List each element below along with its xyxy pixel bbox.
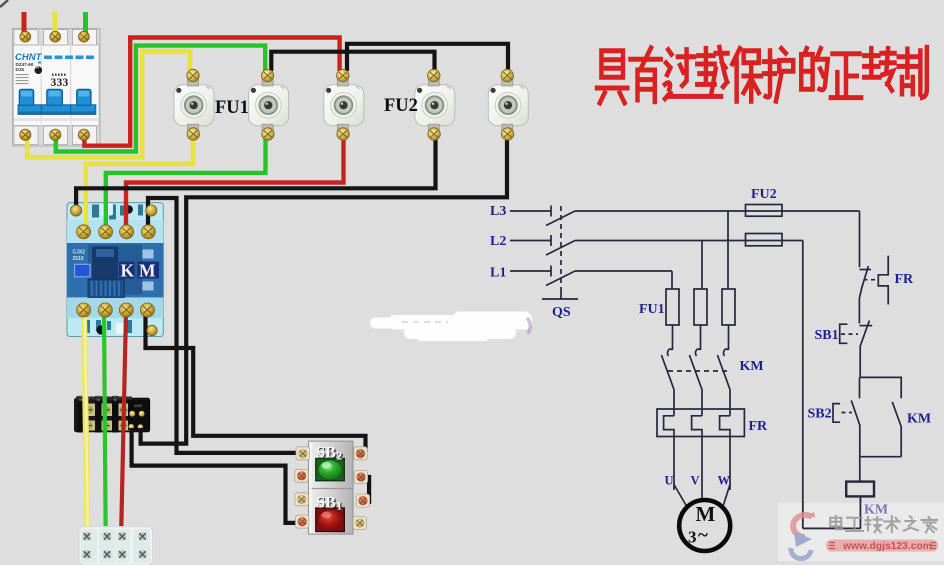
motor M: [679, 500, 730, 551]
title char 制: [899, 47, 927, 97]
motor text M 3~: [688, 502, 716, 547]
title char 的: [801, 48, 827, 89]
FR NC contact (control): [860, 269, 872, 271]
thermal relay FR heater box: [657, 409, 744, 437]
wire fuse to KM contacts: [672, 325, 674, 350]
svg-text:V: V: [691, 474, 700, 488]
screw slots: [22, 33, 512, 314]
wire fuse1 to contactor T1 (yellow): [86, 133, 193, 228]
fuse holder FU1 pole 1: [174, 80, 214, 131]
svg-text:FU1: FU1: [639, 302, 665, 317]
breaker top screws: [20, 31, 31, 42]
white correction blob: [370, 312, 532, 342]
title char 过: [665, 50, 694, 99]
node L3 feed line: [510, 210, 551, 212]
wire phase drops to FU1: [671, 271, 673, 289]
wire U to motor: [674, 485, 687, 507]
fuse holder FU2 pole 1: [415, 80, 455, 131]
circuit breaker QF (CHNT DZ47-60) body: [13, 29, 101, 147]
svg-text:SB1: SB1: [815, 328, 839, 343]
contactor KM main contact 3: [723, 349, 728, 356]
wire black fuse4 to contactor coil A2: [76, 133, 435, 207]
wire black coil jumper A1 and to SB2 left-top: [148, 198, 299, 453]
parallel split top: [860, 377, 902, 398]
svg-text:www.dgjs123.com: www.dgjs123.com: [842, 541, 932, 552]
svg-text:W: W: [718, 474, 731, 488]
wire black fuse2 to fuse4 top: [271, 52, 434, 71]
pushbutton station panel: [308, 441, 353, 534]
wire contactor bottom to terminal strip (yellow): [84, 311, 87, 527]
title char 有: [630, 48, 660, 102]
contactor aux screw: [147, 325, 157, 335]
QS linkage dashed bar: [560, 206, 562, 292]
svg-text:KM: KM: [907, 412, 931, 427]
svg-text:3: 3: [63, 77, 69, 89]
svg-text:M: M: [696, 502, 716, 526]
title char 转: [864, 48, 894, 90]
pushbutton SB2 (green start): [316, 459, 345, 481]
svg-text:KM: KM: [740, 359, 764, 374]
wire L3 bus: [575, 210, 860, 212]
svg-text:2510: 2510: [73, 256, 84, 262]
wire contactor bottom to terminal strip (red dark): [121, 311, 126, 527]
watermark logo: [791, 512, 815, 559]
parallel join bottom: [860, 456, 901, 458]
stop button SB1 (NC): [860, 325, 873, 327]
FR heater element 3: [720, 416, 730, 490]
thermal relay FR body: [75, 396, 150, 433]
watermark banner www.dgjs123.com: [826, 540, 938, 552]
wire breaker to fuse2 (green): [56, 46, 265, 152]
svg-text:SB: SB: [316, 444, 336, 461]
breaker bottom screws: [20, 129, 31, 140]
wire L3 green feed top: [83, 12, 88, 34]
svg-text:U: U: [665, 474, 674, 488]
pushbutton SB1 (red stop): [316, 508, 345, 532]
wire black FR aux to SB1 left-bottom: [132, 428, 299, 523]
coil KM: [846, 482, 874, 497]
title char 正: [831, 54, 861, 98]
svg-text:SB2: SB2: [808, 407, 832, 422]
wire W to motor: [723, 485, 730, 506]
svg-text:3: 3: [688, 528, 697, 547]
contactor KM main contact 2: [695, 349, 700, 356]
svg-text:SB: SB: [316, 495, 336, 512]
svg-text:~: ~: [698, 525, 708, 546]
fuse holder FU1 pole 2: [249, 80, 289, 131]
node L1 feed line: [510, 270, 551, 272]
disconnect switch QS pole L2: [550, 235, 552, 246]
svg-text:FU2: FU2: [384, 96, 418, 116]
svg-text:1: 1: [336, 499, 342, 513]
wire L1 red feed top: [22, 12, 27, 34]
contactor corner screws: [71, 205, 82, 216]
wire fuse2 to contactor T2 (green): [106, 133, 266, 228]
wire L2 bus: [575, 240, 803, 242]
svg-text:L2: L2: [490, 234, 506, 249]
fuse holder FU2 pole 2: [488, 80, 528, 131]
FR heater element 1: [664, 416, 674, 490]
wire control return to FU2b: [802, 241, 804, 529]
svg-text:L1: L1: [490, 266, 506, 281]
wire control branch from L3: [859, 211, 861, 267]
title char 具: [597, 51, 627, 103]
wire black fuse3 to fuse5 top: [347, 44, 508, 71]
wire L2 yellow feed top: [53, 12, 58, 34]
svg-text:FU2: FU2: [751, 187, 777, 202]
contactor KM main contact 1: [667, 349, 672, 356]
wire L1 bus: [575, 270, 672, 272]
svg-text:2: 2: [336, 448, 342, 462]
FR actuator paddle: [878, 256, 888, 305]
wire breaker to fuse3 (red): [84, 38, 339, 146]
wire black SB2 right-bottom to SB1 right-top jumper: [361, 477, 369, 502]
disconnect switch QS pole L1: [550, 266, 552, 277]
FR heater element 2: [692, 416, 702, 499]
watermark CJK text 电工技术之家: [830, 516, 937, 533]
svg-text:M: M: [139, 261, 156, 281]
wire contacts to FR box: [673, 389, 675, 416]
contactor terminal screws bottom row: [77, 303, 91, 317]
svg-text:L3: L3: [490, 204, 506, 219]
fuse FU1 (three cartridges): [666, 289, 679, 325]
KM auxiliary contact (hold-in): [892, 402, 901, 457]
wire contactor bottom to terminal strip (green): [104, 311, 106, 527]
fuse FU2a: [746, 205, 783, 217]
contactor KM body: [67, 203, 163, 337]
fuse FU2b: [746, 234, 783, 246]
wire to coil: [859, 457, 861, 482]
title char 保: [732, 48, 761, 101]
fuse holder FU1 pole 3: [324, 80, 364, 131]
wire breaker to fuse1 (yellow): [27, 51, 190, 157]
fuse top+bottom screws: [187, 69, 199, 81]
label SB2 on station: [316, 444, 343, 513]
start button SB2 (NO): [859, 377, 861, 398]
node L2 feed line: [510, 240, 551, 242]
svg-text:K: K: [121, 261, 135, 281]
svg-text:CJX2: CJX2: [73, 250, 86, 256]
KM linkage dashed: [668, 370, 731, 372]
svg-text:FR: FR: [749, 419, 769, 434]
terminal strip bottom-left: [79, 527, 153, 565]
fuse holder bodies x5: [174, 80, 528, 131]
wire coil bottom loop: [803, 496, 861, 528]
wire black contactor T4-bottom to SB2 right-top: [146, 311, 366, 452]
svg-text:QS: QS: [552, 305, 571, 320]
title char 载: [697, 47, 727, 96]
svg-text:FU1: FU1: [215, 98, 249, 118]
contactor terminal screws top row: [77, 225, 91, 239]
wire black fuse5 to FR aux NC: [141, 133, 507, 444]
svg-text:FR: FR: [895, 272, 915, 287]
svg-text:D15: D15: [16, 67, 25, 72]
title char 护: [764, 48, 793, 101]
disconnect switch QS pole L3: [550, 206, 552, 217]
wire fuse3 to contactor T3 (red): [126, 133, 344, 228]
